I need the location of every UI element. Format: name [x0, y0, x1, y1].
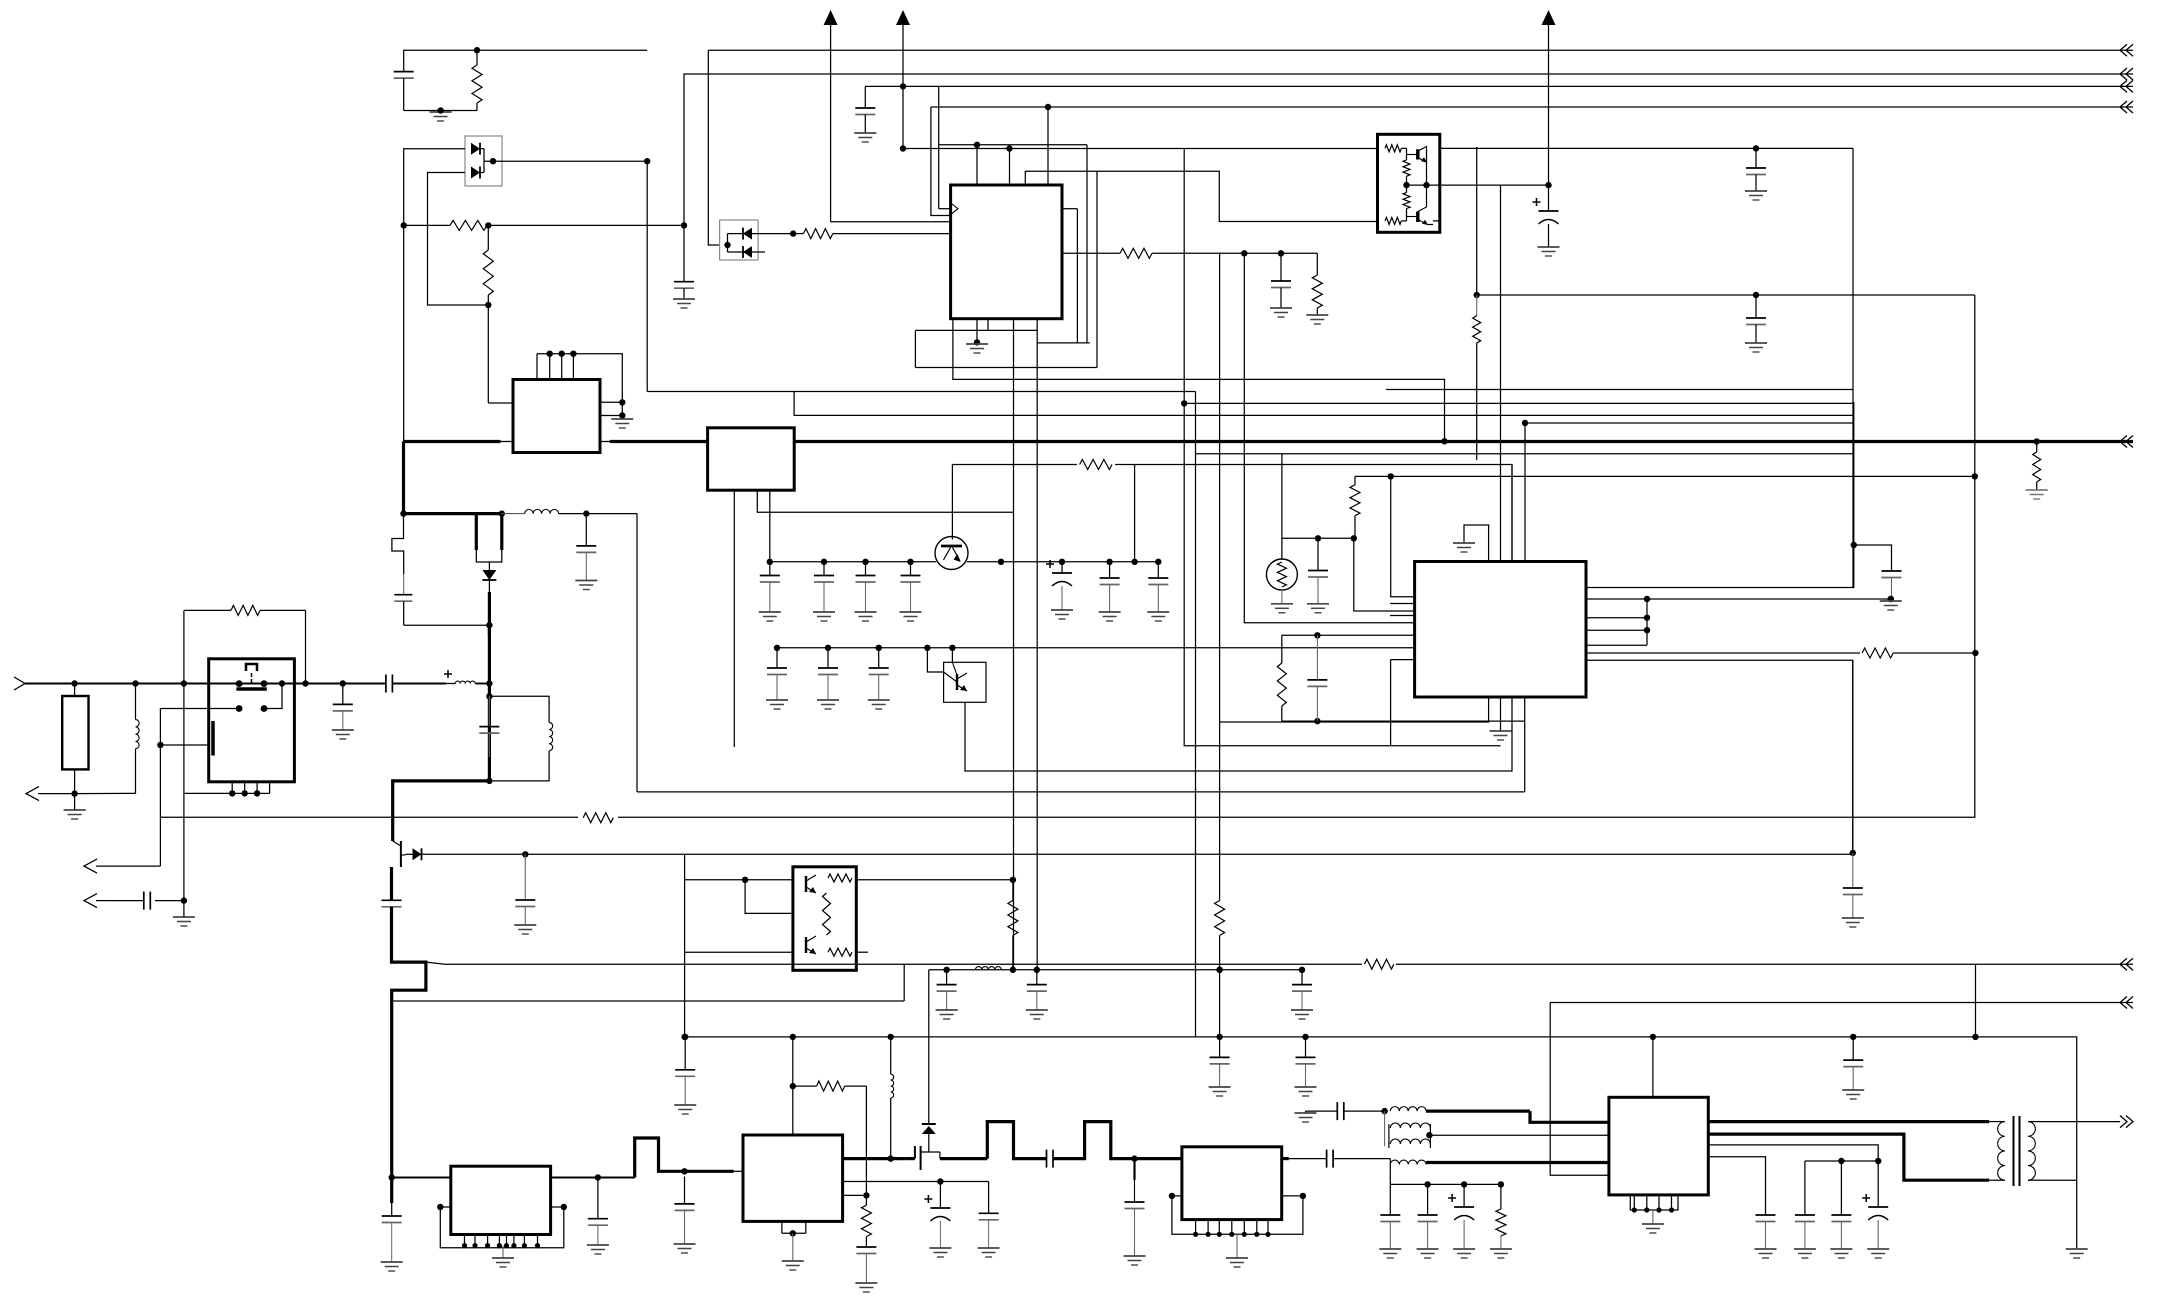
resistor Q5-R1 — [1385, 145, 1401, 152]
polarized cap C47 — [1877, 1161, 1879, 1207]
wire FL1 right — [559, 513, 637, 515]
relay coil bar — [211, 721, 215, 756]
junction 1184-403 — [1181, 400, 1187, 406]
ground G13 — [64, 809, 86, 811]
diode D3 down — [482, 570, 496, 580]
junction x903 — [900, 83, 906, 151]
U4 bottom pins — [1220, 697, 1489, 722]
capacitor C42 — [1389, 1184, 1391, 1215]
wire busA y969 — [929, 969, 1302, 971]
junction choke mid — [1426, 1132, 1432, 1138]
wire U6 pin 1181 — [843, 1181, 989, 1183]
IC U2 regulator — [513, 380, 600, 453]
inductor L4 — [975, 967, 1001, 970]
resistor R15 — [817, 1081, 845, 1091]
ground G5 — [1306, 314, 1328, 316]
junction 745-879 — [742, 877, 748, 883]
capacitor C34 — [684, 1037, 686, 1070]
wire relay coil pin — [160, 744, 208, 746]
inductor L5 — [890, 1037, 892, 1074]
IC U4 — [1415, 562, 1586, 698]
wire relay through — [209, 683, 239, 685]
wire D1 output — [484, 160, 647, 162]
wire busB drop — [1550, 1003, 1609, 1176]
wire U5 out right — [551, 1177, 635, 1179]
wire lamp feed — [1282, 454, 1354, 539]
wire U1 bottom pin977 — [976, 319, 978, 343]
resistor R19 vertical — [1500, 1184, 1502, 1209]
ground G7 — [1745, 190, 1767, 192]
junction 1444 thick — [1441, 438, 1447, 444]
chevron busB — [2120, 997, 2127, 1009]
dual diode box D2 — [720, 220, 759, 260]
choke drop to caps bus — [1389, 1165, 1391, 1185]
transformer T2 secondary — [2028, 1122, 2035, 1181]
wire x1390 to U4 — [1391, 476, 1415, 596]
bus1036 dots — [682, 1034, 1979, 1040]
wire y402 line2 — [1184, 402, 1853, 404]
thick rail U6 right — [843, 1157, 906, 1160]
wire busB y1001 — [1550, 1002, 2133, 1004]
wire U1 bottom pin1037 loop — [1037, 319, 1090, 343]
U5 bottom dots — [462, 1243, 540, 1248]
capacitor C29 — [684, 1177, 686, 1204]
wire busA-bus1036 link — [1975, 964, 1977, 1037]
main line dots — [71, 680, 346, 686]
wire U3 bottom pin2 — [757, 490, 1013, 512]
junction R1 top — [474, 47, 480, 53]
junction R5 right — [1241, 250, 1284, 256]
resistor R1 vertical — [476, 50, 478, 65]
wire x684 mid vertical — [684, 854, 686, 1037]
wire to choke — [1333, 1158, 1390, 1160]
U8 out3 — [1708, 1145, 1878, 1161]
U6 bottom dot — [790, 1230, 796, 1236]
wire loop L4 — [1047, 107, 1049, 185]
transistor Q5b — [1416, 212, 1420, 223]
U2 top pin dots — [547, 351, 577, 357]
junction Q5 join — [1403, 182, 1429, 188]
thick corner to Q4 — [393, 781, 490, 841]
junction 940-1181 — [937, 1178, 943, 1184]
wire Q5 mid out — [1407, 184, 1440, 186]
capacitor C27 — [382, 1215, 402, 1217]
resistor R20 chevA — [1362, 958, 1396, 971]
capacitor C36 — [1305, 1037, 1307, 1058]
IC U1 controller — [951, 185, 1062, 319]
wire y390 line — [647, 391, 1195, 393]
resistor R18 vertical — [1215, 901, 1225, 936]
choke mid coils — [1390, 1123, 1430, 1128]
U4 right pin G — [1586, 660, 1853, 853]
wire bus y745 — [1184, 745, 1501, 747]
relay contact dots — [236, 680, 268, 687]
resistor R2 horizontal — [404, 224, 450, 226]
transistor Q6a — [805, 876, 807, 892]
junction 1219 busA — [1216, 967, 1222, 973]
U8 out1 thick — [1708, 1120, 1989, 1123]
capacitor C37 — [1852, 1037, 1854, 1060]
polarized cap C44 — [1463, 1184, 1465, 1207]
wire U3 bottom pin3 — [769, 490, 771, 561]
capacitor C1 top-left — [394, 71, 414, 73]
choke mid tap — [1384, 1111, 1386, 1146]
junction 1476-295 — [1474, 292, 1480, 298]
junction 1384-1111 — [1381, 1108, 1387, 1114]
chevron bus50 — [2120, 44, 2127, 56]
wire R2 to C2 node — [488, 224, 684, 226]
ground G16 — [514, 924, 536, 926]
IC U6 — [743, 1135, 843, 1221]
wire chevA net — [426, 962, 2133, 964]
capacitor C7 — [1755, 295, 1757, 318]
wire 1353 drop — [1354, 538, 1415, 611]
wire rail to U5 — [392, 1177, 451, 1179]
U8 out4 — [1708, 1157, 1765, 1215]
U7 under loop — [1172, 1196, 1303, 1234]
junction 586-513 — [583, 510, 589, 516]
polarized cap C18 — [1061, 562, 1063, 573]
U6 top pin — [792, 1037, 794, 1135]
wire top-left net — [404, 50, 648, 71]
wire x708 drop to opto — [708, 50, 719, 245]
U7 gnd stem — [1236, 1234, 1238, 1258]
ground G24 — [2066, 1248, 2088, 1250]
junction 1975-653 — [1972, 650, 1978, 656]
ground G1 — [430, 111, 452, 113]
wire U1 right pin 253 — [1062, 252, 1120, 254]
junction 890 rail — [888, 1155, 894, 1161]
capacitor C31 — [946, 970, 948, 985]
junction opto in — [724, 242, 730, 248]
capacitor C4 — [1280, 253, 1282, 281]
ground G21 — [674, 1243, 696, 1245]
wire caps bus y1184 — [1390, 1183, 1501, 1185]
junction thick 391-1177 — [389, 1174, 395, 1180]
transistor pair box Q5 — [1378, 134, 1440, 232]
junction 1525-423 — [1522, 420, 1528, 426]
U4 right pin D — [1586, 629, 1647, 631]
wire x1975 vertical — [1974, 295, 1976, 817]
wire y622 route — [1244, 253, 1414, 623]
junction 1548-185 — [1545, 182, 1551, 188]
resistor Q6-R2 vertical — [823, 893, 831, 935]
wire x1853 upper vertical — [1852, 148, 1854, 587]
wire x1853 cap tap — [1854, 545, 1892, 571]
U5 side dots — [437, 1204, 567, 1210]
wire busA gate drop — [928, 970, 930, 1124]
inductor L2 polarized — [444, 673, 452, 675]
arrow terminal T1 — [26, 787, 39, 801]
wire x403 down — [403, 225, 405, 441]
junction 684 bus1036 — [681, 1034, 687, 1040]
capacitor C19 — [1109, 562, 1111, 578]
capacitor C35 — [1219, 1037, 1221, 1058]
thick step down — [392, 907, 426, 1178]
diode D2a — [743, 228, 752, 240]
ground G2 — [673, 298, 695, 300]
junction C1-gnd — [437, 107, 443, 113]
wire x647 drop — [646, 161, 648, 391]
wire y464 line — [952, 465, 1512, 562]
diode D4 right — [413, 848, 422, 860]
pinB dots — [1644, 596, 1894, 602]
junction 184-900 — [181, 897, 187, 903]
wire U2 top pins — [536, 354, 538, 380]
junction 1390-476 — [1388, 473, 1394, 479]
wire relay lower contact — [264, 684, 282, 709]
ground G15 — [332, 729, 354, 731]
transistor Q6b — [805, 937, 807, 953]
thick rail steps — [940, 1157, 987, 1160]
choke coil T1a — [1390, 1107, 1426, 1111]
wire choke bottom left — [1389, 1159, 1391, 1165]
wire Q6 out right — [856, 879, 1013, 881]
thick rail steps 2 — [1053, 1122, 1182, 1159]
junction 1975 — [1972, 473, 1978, 479]
capacitor C45 — [1804, 1161, 1806, 1215]
wire y415 line — [794, 392, 1853, 416]
capacitor C11 — [342, 684, 344, 705]
choke coil T1b — [1390, 1160, 1426, 1164]
wire bus-y86 — [865, 85, 2133, 87]
wire Q5 out 148 — [1440, 147, 1853, 149]
IC U7 — [1182, 1147, 1282, 1220]
polarized cap C6 — [1548, 185, 1550, 211]
wire x184 vertical — [183, 684, 185, 901]
wire bus y647 — [777, 647, 1414, 649]
ground G3 — [854, 132, 876, 134]
junction 684 rail — [681, 1168, 687, 1174]
thick choke bottom — [1426, 1161, 1609, 1164]
thick stub below — [390, 1178, 393, 1204]
ground G22 — [855, 1282, 877, 1284]
resistor R17 vertical — [1008, 901, 1018, 936]
wire y453 bus — [1196, 453, 1853, 455]
wire x1390 lower — [1390, 660, 1392, 746]
capacitor C41 series — [1336, 1102, 1338, 1120]
IC U5 — [451, 1166, 551, 1234]
power arrow A1 — [824, 10, 838, 25]
wire bus-y50 — [708, 49, 2133, 51]
relay lower dots — [236, 705, 268, 712]
power arrow A2 — [896, 10, 910, 25]
capacitor C8 — [585, 514, 587, 546]
wire to L2 plus — [392, 683, 446, 685]
U8 bottom pins — [1633, 1195, 1635, 1210]
U5 gnd stem — [502, 1246, 504, 1258]
junction 1756-295 — [1753, 292, 1759, 298]
wire D1a input — [404, 149, 465, 226]
U4 right pin E — [1586, 644, 1647, 646]
U4 top pin3 — [1511, 465, 1513, 562]
capacitor C5 — [1755, 148, 1757, 168]
resistor R16 vertical — [861, 1205, 871, 1236]
wire U1 bottom pin1013 long — [1013, 319, 1015, 970]
wire L3 bottom — [489, 751, 549, 781]
resistor R14 — [1860, 646, 1896, 660]
capacitor C30 — [865, 1237, 867, 1247]
wire U3 bottom pin1 — [733, 490, 735, 747]
capacitor C12 series — [385, 675, 387, 693]
wire relay left contact — [160, 709, 239, 867]
capacitor C21b — [827, 648, 829, 668]
clock triangle U1 — [951, 203, 958, 214]
diode D1b — [471, 167, 480, 179]
U4 right pin F — [1586, 652, 1862, 654]
wire U1 bottom pin988 loop — [988, 319, 1037, 331]
resistor RV1 block — [62, 696, 88, 769]
resistor Q5-R3 vertical — [1403, 193, 1410, 209]
wire x866 chain — [865, 1086, 867, 1205]
wire y379 line — [953, 319, 1445, 442]
junction R7 top — [2034, 438, 2040, 444]
resistor R10 bypass — [183, 610, 185, 683]
ground G20 — [587, 1244, 609, 1246]
capacitor C9b — [823, 562, 825, 576]
U4 right pin B — [1586, 598, 1891, 600]
capacitor C38 series — [1046, 1150, 1048, 1168]
wire y295 line — [1477, 147, 1975, 295]
U7 bottom pins — [1195, 1220, 1197, 1235]
capacitor C9c — [865, 562, 867, 576]
junction R3 bottom — [485, 302, 491, 308]
capacitor C2 mid — [683, 225, 685, 281]
resistor R4 horizontal — [803, 229, 832, 239]
wire x1134 riser — [1134, 465, 1136, 562]
wire C1 bottom to ground — [404, 110, 477, 112]
capacitor C39 — [1133, 1159, 1135, 1180]
wire L3 drop 1097 — [1096, 171, 1098, 367]
wire y367 route — [915, 367, 1097, 369]
junction 792-1086 — [790, 1083, 796, 1089]
thick stub Q3b — [500, 514, 503, 550]
capacitor C20 — [1157, 562, 1159, 578]
wire bus y817 start — [160, 816, 1975, 818]
wire x1037 long vertical — [1036, 343, 1038, 970]
capacitor C22 — [1317, 538, 1319, 570]
wire loop L3 — [1025, 171, 1377, 221]
MOSFET Q4 gate — [400, 841, 402, 867]
wire Q6 stub right — [856, 951, 868, 953]
relay box K1 — [209, 659, 295, 782]
junction C24 gnd — [1888, 596, 1894, 602]
wire Q6 pin2 — [745, 880, 793, 914]
capacitor C9a — [769, 562, 771, 576]
lamp TH1 — [1281, 538, 1283, 559]
junction L4 — [1045, 104, 1051, 110]
U4 right pin A — [1586, 402, 1854, 588]
resistor Q5-R2 vertical — [1403, 160, 1410, 176]
ground G19 — [381, 1261, 403, 1263]
resistor Q6-R1 — [828, 874, 852, 882]
wire L1 riser — [976, 145, 978, 185]
U6 gnd stem — [792, 1233, 794, 1261]
chevron bus441 — [2120, 436, 2127, 448]
resistor R11 — [1077, 458, 1115, 471]
wire Q1 base drop — [951, 465, 953, 540]
wire bus y1036 — [685, 1037, 2077, 1249]
ground G8 — [1538, 246, 1560, 248]
junction D1 out — [490, 158, 651, 164]
wire y477 line — [1355, 475, 1975, 477]
capacitor C26 — [1852, 853, 1854, 888]
junction 1134 rail — [1131, 1155, 1137, 1161]
capacitor C32 — [1036, 970, 1038, 985]
wire choke mid out — [1429, 1134, 1609, 1136]
wire x1183 vertical — [1183, 149, 1185, 746]
wire relay pin bus — [184, 792, 270, 794]
wire pin bus vertical — [1646, 599, 1648, 645]
wire x1195 vertical — [1195, 392, 1197, 1037]
transistor box Q6 — [793, 867, 856, 971]
resistor R8 vertical — [1476, 295, 1478, 316]
wire LF1 to T1 — [75, 792, 136, 794]
capacitor C28 — [597, 1178, 599, 1219]
caps row dots — [767, 559, 914, 565]
resistor R12 vertical — [1354, 476, 1356, 484]
junction R2 — [401, 222, 492, 228]
U2 right pin dots — [619, 399, 625, 419]
wire x403 jog — [392, 514, 404, 574]
junction L2 — [1006, 145, 1012, 151]
U4 right pin C — [1586, 617, 1647, 619]
wire Q3 mid stub — [488, 562, 490, 570]
choke gnd hook — [1306, 1110, 1338, 1112]
polarized cap C49 — [939, 1182, 941, 1209]
chevron bus74 — [2120, 68, 2127, 80]
U6 bottom pins — [781, 1221, 783, 1233]
wire Q2 base — [927, 648, 943, 672]
wire Q5 out 185 — [1440, 184, 1549, 186]
capacitor C21a — [776, 648, 778, 668]
U7 side dots — [1169, 1193, 1306, 1199]
wire Q5 join vertical — [1426, 148, 1428, 207]
capacitor C24 — [1882, 570, 1902, 572]
pin bus dots — [1644, 615, 1650, 634]
wire 488 down to U2 — [487, 305, 489, 403]
ground G6 — [966, 343, 988, 345]
U8 top pin — [1652, 1037, 1654, 1097]
lamp feed dots — [1315, 535, 1357, 541]
RC dots — [1314, 632, 1320, 724]
capacitor C13 — [488, 696, 490, 726]
bus647 dots — [774, 645, 956, 651]
U8 gnd stem — [1652, 1210, 1654, 1224]
cap row dots — [1838, 1158, 1881, 1164]
ground G14 — [173, 916, 195, 918]
busA dots — [943, 967, 1305, 973]
RC cluster rails — [1282, 634, 1415, 636]
transformer T2 core — [2013, 1116, 2015, 1186]
wire y854 bus — [422, 853, 1853, 855]
wire bus-y74 corner — [684, 74, 2133, 225]
thick choke top — [1426, 1109, 1530, 1112]
junction C2 top — [681, 222, 687, 228]
resistor R6 vertical — [1316, 253, 1318, 275]
wire caps row y561 — [770, 561, 936, 563]
MOSFET Q7 — [906, 1157, 915, 1160]
input chevron J1 — [14, 677, 25, 690]
wire D1b input — [428, 173, 489, 306]
U4 top pin2 — [1500, 185, 1502, 561]
capacitor C33 — [1301, 970, 1303, 985]
wire arrow1 to U1 — [831, 221, 951, 223]
wire opto out — [758, 233, 793, 235]
thick step UV — [635, 1138, 734, 1178]
capacitor C23 — [1316, 635, 1318, 680]
main line left — [25, 683, 386, 685]
